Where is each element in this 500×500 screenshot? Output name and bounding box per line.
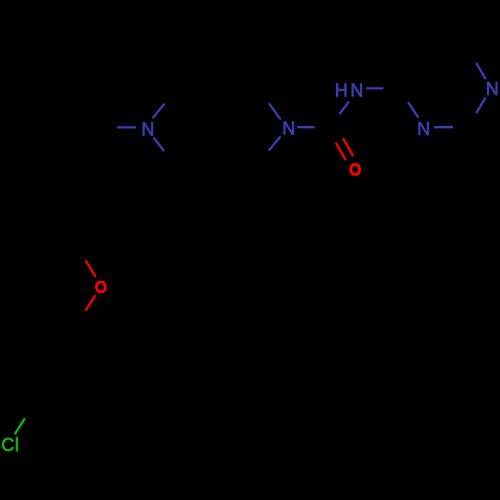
svg-text:O: O xyxy=(95,277,107,297)
wire: bond stub N3 pyrimidine upper-left xyxy=(408,102,418,118)
svg-text:N: N xyxy=(486,79,499,99)
wire: bond stub N2-C(=O) (right horizontal) xyxy=(297,126,315,128)
wire: bond stub N1 pyrimidine upper-left xyxy=(476,63,486,79)
wire: bond stub C(=O)-NH diagonal xyxy=(340,102,350,115)
svg-text:N: N xyxy=(141,119,154,139)
wire: bond stub N3-C2 pyrimidine (right horizontal) xyxy=(434,126,453,128)
wire: bond stub N1 pyrimidine lower-left xyxy=(476,98,485,114)
wire: carbonyl C=O double bond line 2 xyxy=(336,143,346,161)
wire: bond stub N7 lower-right xyxy=(154,138,165,152)
svg-text:H: H xyxy=(335,80,348,100)
wire: bond stub NH-C4 pyrimidine (horizontal) xyxy=(366,87,383,89)
wire: bond stub N7-CH2 (left horizontal) xyxy=(117,126,136,128)
wire: bond stub N2 lower-left xyxy=(269,136,281,150)
svg-text:C: C xyxy=(1,435,14,455)
wire: bond stub N2 upper-left xyxy=(269,103,281,119)
svg-text:N: N xyxy=(282,119,295,139)
svg-text:l: l xyxy=(15,435,19,455)
svg-text:N: N xyxy=(350,80,363,100)
svg-text:O: O xyxy=(349,159,361,179)
wire: bond stub ether O lower-left xyxy=(86,295,96,311)
svg-text:N: N xyxy=(417,119,430,139)
wire: bond stub N7 upper-right xyxy=(153,104,165,119)
wire: carbonyl C=O double bond line 1 xyxy=(343,138,353,156)
wire: bond stub ether O upper-left xyxy=(86,260,96,277)
wire: bond stub Cl-C aryl xyxy=(15,418,25,434)
